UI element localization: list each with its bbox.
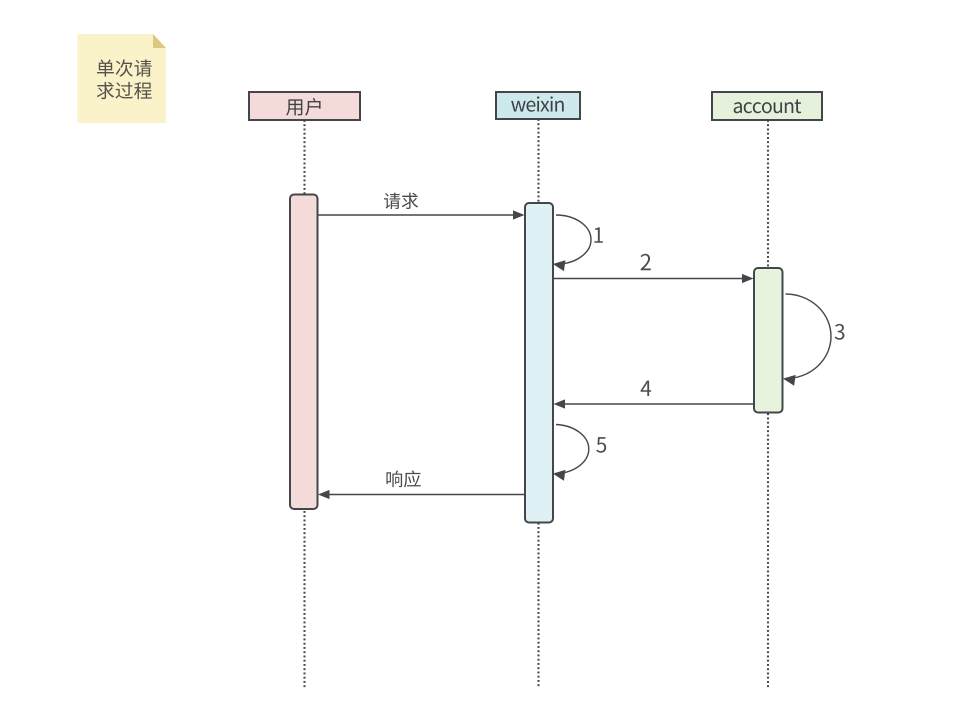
actor header box 用户 — [249, 92, 360, 120]
activation bar weixin — [525, 203, 553, 523]
actor header box account — [712, 92, 822, 120]
sticky note 单次请求过程 — [78, 34, 167, 123]
message arrow 4 (account→weixin) — [554, 381, 754, 409]
message arrow 请求 (用户→weixin) — [318, 193, 525, 220]
self-call loop 1 on weixin — [552, 215, 603, 271]
lifeline dashed line: weixin — [537, 119, 539, 688]
message arrow 2 (weixin→account) — [553, 254, 754, 283]
message arrow 响应 (weixin→用户) — [318, 470, 525, 499]
lifeline dashed line: 用户 — [303, 120, 305, 688]
actor header box weixin — [496, 92, 580, 119]
self-call loop 5 on weixin — [552, 425, 606, 481]
lifeline dashed line: account — [767, 120, 769, 688]
self-call loop 3 on account — [782, 294, 844, 386]
activation bar account — [754, 268, 783, 413]
activation bar 用户 — [290, 195, 318, 510]
